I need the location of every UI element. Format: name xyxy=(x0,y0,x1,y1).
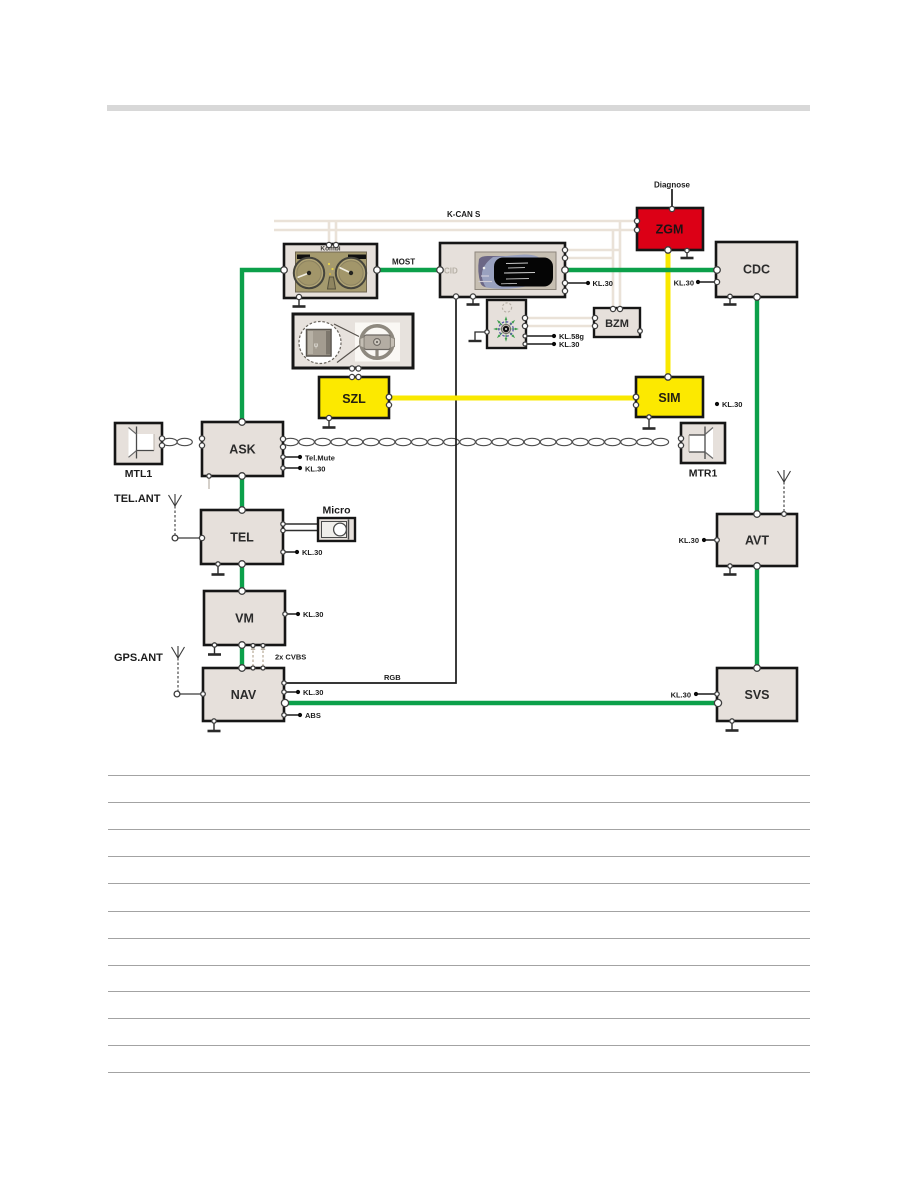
wire CID to K-CAN drop 1 xyxy=(565,249,620,252)
svg-text:SZL: SZL xyxy=(342,392,366,406)
svg-text:MTR1: MTR1 xyxy=(689,468,718,480)
ground SZL xyxy=(323,419,336,428)
svg-text:2x CVBS: 2x CVBS xyxy=(275,653,306,662)
wire controller to BZM 1 xyxy=(525,317,595,320)
antenna AVT xyxy=(778,470,791,512)
ground NAV xyxy=(208,722,221,731)
wire KL.30 stub SVS xyxy=(696,693,717,695)
node VM connectors xyxy=(239,588,246,595)
svg-text:KL.30: KL.30 xyxy=(303,688,323,697)
svg-text:KL.30: KL.30 xyxy=(593,279,613,288)
steering wheel pictogram box xyxy=(293,314,413,368)
svg-text:K-CAN S: K-CAN S xyxy=(447,210,481,219)
antenna GPS.ANT xyxy=(172,646,185,697)
svg-text:TEL: TEL xyxy=(230,531,254,545)
wire K-CAN drop to Kombi 1 xyxy=(328,221,331,245)
wire MOST TEL to VM xyxy=(240,564,244,591)
ground Kombi xyxy=(293,298,306,307)
wire MOST CID to CDC xyxy=(565,268,717,272)
wire KL.30 stub TEL xyxy=(283,551,297,553)
node MTL1 connectors xyxy=(159,436,164,441)
node Kombi connectors xyxy=(326,242,331,247)
wire Tel.Mute stub ASK xyxy=(283,456,300,458)
svg-text:CDC: CDC xyxy=(743,263,770,277)
speaker MTR1 xyxy=(681,423,725,480)
node NAV connectors xyxy=(239,665,246,672)
svg-text:NAV: NAV xyxy=(231,688,257,702)
microphone Micro xyxy=(283,505,355,542)
svg-text:SIM: SIM xyxy=(658,391,680,405)
svg-text:KL.30: KL.30 xyxy=(303,610,323,619)
ground CID xyxy=(467,298,480,305)
svg-text:MOST: MOST xyxy=(392,258,415,267)
node ZGM connectors xyxy=(669,206,674,211)
svg-text:VM: VM xyxy=(235,612,254,626)
safety information module SIM xyxy=(636,377,703,417)
navigation computer NAV xyxy=(203,668,284,721)
central information display dimmer BZM xyxy=(594,308,640,337)
wire 2x CVBS 1 xyxy=(252,646,254,667)
node TEL connectors xyxy=(239,507,246,514)
svg-text:GPS.ANT: GPS.ANT xyxy=(114,652,163,664)
audio amplifier ASK xyxy=(202,422,283,476)
wire MOST CDC to AVT xyxy=(755,297,759,514)
ground VM xyxy=(208,646,221,655)
wire MOST Kombi to CID xyxy=(377,268,440,272)
ground stub ASK xyxy=(208,477,210,489)
wire MOST AVT to SVS xyxy=(755,566,759,668)
wire KL.30 stub AVT xyxy=(704,539,717,541)
svg-text:KL.30: KL.30 xyxy=(671,691,691,700)
wire ABS stub NAV xyxy=(284,714,300,716)
voice input system SVS xyxy=(717,668,797,721)
node MTR1 connectors xyxy=(678,436,683,441)
CD changer CDC xyxy=(716,242,797,297)
svg-text:ψ: ψ xyxy=(314,343,318,349)
wire CID to K-CAN drop 2 xyxy=(565,257,613,260)
wire KL.30 stub NAV xyxy=(284,691,298,693)
speaker MTL1 xyxy=(115,423,162,480)
wire K-CAN S horizontal 2 xyxy=(274,229,637,232)
svg-text:Micro: Micro xyxy=(322,505,350,517)
svg-text:ASK: ASK xyxy=(229,443,255,457)
wire byteflight ZGM to SIM xyxy=(666,251,671,377)
antenna TEL.ANT xyxy=(169,494,182,541)
wire Diagnose to ZGM xyxy=(671,189,673,209)
node CDC connectors xyxy=(714,267,721,274)
node BZM connectors xyxy=(610,306,615,311)
wire 2x CVBS 2 xyxy=(262,646,264,667)
node AVT connectors xyxy=(754,511,761,518)
node controller connectors xyxy=(522,315,527,320)
wire GPS antenna feed xyxy=(180,693,203,695)
svg-text:Tel.Mute: Tel.Mute xyxy=(305,454,335,463)
wire K-CAN S horizontal 1 xyxy=(274,220,637,223)
node CID connectors xyxy=(437,267,444,274)
svg-text:CID: CID xyxy=(444,267,458,276)
telephone TEL xyxy=(201,510,283,564)
wire TEL antenna feed xyxy=(178,537,202,539)
wire MOST Kombi left down to ASK xyxy=(242,270,284,422)
node ASK connectors xyxy=(239,419,246,426)
wire K-CAN drop to BZM 1 xyxy=(612,230,615,309)
ground SIM xyxy=(643,418,656,429)
display CID xyxy=(440,243,565,297)
instrument cluster Kombi xyxy=(284,244,377,298)
svg-text:KL.30: KL.30 xyxy=(674,279,694,288)
gateway module ZGM xyxy=(637,208,703,250)
wire K-CAN drop to BZM 2 xyxy=(619,221,622,309)
svg-text:TEL.ANT: TEL.ANT xyxy=(114,493,161,505)
svg-text:ZGM: ZGM xyxy=(656,223,684,237)
svg-text:KL.30: KL.30 xyxy=(302,548,322,557)
steering column switch SZL xyxy=(319,377,389,418)
wire KL.30 stub ASK xyxy=(283,467,300,469)
svg-text:KL.30: KL.30 xyxy=(679,536,699,545)
svg-text:KL.30: KL.30 xyxy=(305,465,325,474)
ground TEL xyxy=(212,565,225,575)
node SVS connectors xyxy=(754,665,761,672)
iDrive controller xyxy=(487,300,526,348)
terminal dots xyxy=(586,281,590,285)
top divider bar xyxy=(107,105,810,111)
speaker wire chain MTL1 to ASK xyxy=(162,438,192,445)
node steering to SZL connectors xyxy=(349,366,354,371)
svg-text:KL.30: KL.30 xyxy=(722,400,742,409)
wire byteflight SZL to SIM xyxy=(389,396,636,401)
svg-text:ABS: ABS xyxy=(305,711,321,720)
wire KL.30 stub CID xyxy=(565,282,588,284)
svg-text:MTL1: MTL1 xyxy=(125,468,153,480)
svg-text:AVT: AVT xyxy=(745,534,769,548)
ground CDC xyxy=(724,298,737,305)
ground controller xyxy=(469,332,488,341)
svg-text:BZM: BZM xyxy=(605,318,629,330)
wire KL.58g stub controller xyxy=(525,335,554,337)
wire MOST VM to NAV xyxy=(240,645,244,668)
node SIM connectors xyxy=(633,394,639,400)
wire controller to BZM 2 xyxy=(525,325,595,328)
antenna tuner AVT xyxy=(717,514,797,566)
svg-text:SVS: SVS xyxy=(744,688,769,702)
node SZL connectors xyxy=(386,394,392,400)
ground ZGM xyxy=(681,251,694,258)
wire MOST ASK to TEL xyxy=(240,477,244,510)
video module VM xyxy=(204,591,285,645)
ground AVT xyxy=(724,567,737,575)
svg-text:Diagnose: Diagnose xyxy=(654,181,691,190)
ruled notes lines xyxy=(108,776,810,1073)
svg-text:RGB: RGB xyxy=(384,673,401,682)
wire KL.30 stub VM xyxy=(285,613,298,615)
ground SVS xyxy=(726,722,739,731)
wire KL.30 stub CDC xyxy=(698,281,717,283)
svg-text:KL.30: KL.30 xyxy=(559,340,579,349)
wire MOST NAV to SVS xyxy=(284,701,717,705)
wire KL.30 stub controller xyxy=(525,343,554,345)
wire K-CAN drop to Kombi 2 xyxy=(335,222,338,245)
wire RGB CID to NAV xyxy=(285,297,456,683)
speaker wire chain ASK to MTR1 xyxy=(283,438,669,445)
